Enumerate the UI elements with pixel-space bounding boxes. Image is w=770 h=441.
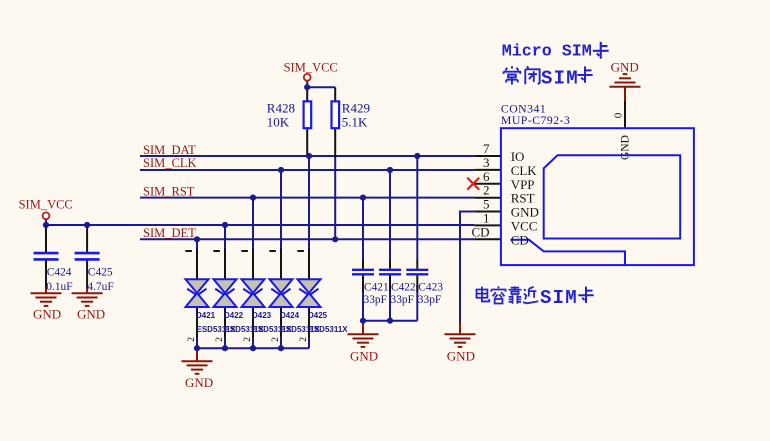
svg-text:2: 2 <box>271 337 281 342</box>
svg-text:CD: CD <box>511 232 529 247</box>
svg-text:D423: D423 <box>252 311 272 320</box>
svg-text:4.7uF: 4.7uF <box>87 281 113 293</box>
svg-text:SIM_CLK: SIM_CLK <box>143 156 196 170</box>
svg-text:0: 0 <box>613 112 625 118</box>
svg-text:CD: CD <box>471 224 489 239</box>
svg-text:0.1uF: 0.1uF <box>46 281 72 293</box>
svg-text:C421: C421 <box>364 281 389 293</box>
svg-text:GND: GND <box>447 348 475 363</box>
svg-text:C422: C422 <box>391 281 416 293</box>
svg-text:ESD5311X: ESD5311X <box>309 325 349 334</box>
svg-text:10K: 10K <box>267 115 290 130</box>
svg-text:D421: D421 <box>196 311 216 320</box>
svg-text:CLK: CLK <box>511 163 538 178</box>
svg-text:7: 7 <box>483 141 490 156</box>
svg-text:1: 1 <box>483 210 490 225</box>
svg-text:GND: GND <box>350 348 378 363</box>
svg-text:5: 5 <box>483 197 490 212</box>
svg-text:SIM: SIM <box>540 287 578 309</box>
svg-text:2: 2 <box>243 337 253 342</box>
svg-text:SIM_RST: SIM_RST <box>143 184 195 198</box>
svg-text:R429: R429 <box>342 100 370 115</box>
svg-text:GND: GND <box>619 135 631 160</box>
svg-text:VCC: VCC <box>511 218 538 233</box>
svg-text:33pF: 33pF <box>418 294 441 306</box>
svg-text:GND: GND <box>33 306 61 321</box>
svg-text:SIM_VCC: SIM_VCC <box>19 198 73 212</box>
svg-text:6: 6 <box>483 169 490 184</box>
svg-text:Micro SIM: Micro SIM <box>502 42 592 61</box>
svg-text:2: 2 <box>187 337 197 342</box>
svg-text:RST: RST <box>511 191 535 206</box>
svg-text:GND: GND <box>611 59 639 74</box>
svg-text:GND: GND <box>77 306 105 321</box>
svg-text:2: 2 <box>299 337 309 342</box>
svg-text:IO: IO <box>511 149 525 164</box>
svg-text:2: 2 <box>215 337 225 342</box>
svg-text:SIM_DET: SIM_DET <box>143 226 196 240</box>
svg-text:2: 2 <box>483 183 490 198</box>
svg-text:5.1K: 5.1K <box>342 115 368 130</box>
svg-text:C425: C425 <box>88 267 113 279</box>
svg-text:SIM_VCC: SIM_VCC <box>284 61 338 75</box>
svg-text:D425: D425 <box>308 311 328 320</box>
svg-text:C424: C424 <box>47 267 72 279</box>
svg-text:MUP-C792-3: MUP-C792-3 <box>501 113 570 127</box>
svg-text:33pF: 33pF <box>391 294 414 306</box>
svg-text:SIM_DAT: SIM_DAT <box>143 143 196 157</box>
svg-text:D424: D424 <box>280 311 300 320</box>
svg-text:C423: C423 <box>418 281 443 293</box>
svg-text:GND: GND <box>185 375 213 390</box>
svg-text:GND: GND <box>511 205 539 220</box>
svg-text:VPP: VPP <box>511 177 535 192</box>
svg-text:3: 3 <box>483 155 490 170</box>
svg-text:33pF: 33pF <box>364 294 387 306</box>
svg-text:D422: D422 <box>224 311 244 320</box>
svg-text:R428: R428 <box>267 100 295 115</box>
svg-text:SIM: SIM <box>541 67 579 89</box>
